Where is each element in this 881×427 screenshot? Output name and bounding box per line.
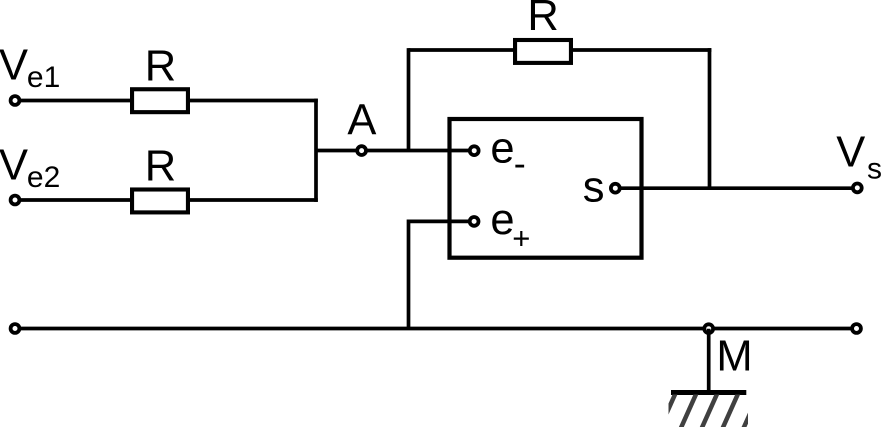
wire feedback top right [571,48,711,52]
ground stem [707,329,711,393]
wire input bus vertical [314,99,318,202]
node A [357,146,366,155]
wire R1 to input bus [188,99,318,103]
svg-text:e: e [490,196,514,244]
resistor R2 [132,190,188,213]
svg-text:e2: e2 [27,161,60,194]
resistor R feedback [515,40,571,63]
svg-text:R: R [527,0,558,40]
svg-text:M: M [716,332,752,380]
svg-text:V: V [836,129,865,177]
pin e- [470,146,479,155]
pin s [611,184,620,193]
wire e+ horizontal [409,220,475,224]
terminal Vs [853,184,862,193]
svg-text:+: + [512,220,530,255]
svg-text:s: s [583,163,605,211]
svg-text:s: s [867,152,881,185]
wire feedback right vertical [708,48,712,188]
op-amp box U1 [450,119,642,258]
wire Ve1 to R1 [13,99,132,103]
wire feedback top left [409,48,516,52]
terminal Ve1 [11,96,20,105]
svg-text:e: e [490,125,514,173]
ground bar [671,390,746,395]
svg-text:V: V [0,41,28,89]
pin e+ [470,217,479,226]
terminal bottom right [852,324,861,333]
wire feedback tap vertical [407,48,411,150]
wire Ve2 to R2 [13,198,132,202]
wire output s to Vs [615,186,857,190]
svg-text:e1: e1 [27,61,60,94]
resistor R1 [132,89,188,112]
terminal Ve2 [11,196,20,205]
node M junction [704,324,713,333]
svg-text:A: A [347,96,376,144]
svg-text:R: R [145,42,176,90]
svg-text:-: - [514,142,526,183]
wire e+ drop to ground rail [407,220,411,329]
svg-text:R: R [145,142,176,190]
wire R2 to input bus [188,198,318,202]
ground hatch [638,392,780,427]
svg-text:V: V [0,141,28,189]
terminal bottom left [11,324,20,333]
wire node A to e- input [316,149,474,153]
wire bottom rail [13,327,857,331]
